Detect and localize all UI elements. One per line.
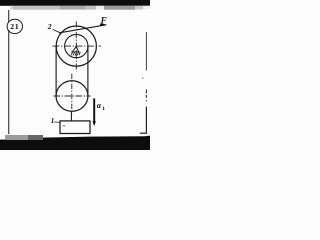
svg-text:1: 1 (102, 106, 105, 112)
load rectangle 1 (60, 121, 90, 134)
problem number circle 21 (7, 19, 22, 33)
pulley 2 vertical center line (75, 22, 77, 72)
pulley 1 horizontal center line (54, 95, 91, 97)
svg-text:2: 2 (47, 22, 52, 31)
right edge adjacent figure border (145, 32, 147, 71)
force F arrowhead (100, 24, 107, 27)
rope to force F (59, 25, 106, 33)
leader line label 1 (54, 121, 59, 124)
svg-text:F: F (100, 15, 107, 25)
rope to load (70, 111, 72, 121)
frame left border (8, 10, 10, 134)
pulley 1 vertical center line (71, 74, 73, 115)
svg-text:21: 21 (10, 22, 19, 31)
left rope (55, 46, 57, 96)
pulley 1 circle (56, 81, 88, 112)
pulley 2 inner circle (65, 34, 88, 57)
right edge bottom corner line (140, 132, 147, 134)
pulley 2 horizontal center line (53, 45, 102, 47)
pulley 2 outer circle (56, 26, 96, 66)
right rope (87, 46, 89, 96)
svg-text:1: 1 (51, 117, 55, 125)
leader line label 2 (53, 29, 62, 33)
scan black bar bottom (0, 136, 150, 150)
svg-text:a: a (97, 101, 101, 110)
small mark inside load (63, 125, 66, 127)
scan dark block bottom left (28, 135, 43, 140)
scan gray band top (0, 0, 150, 6)
scan gray block bottom left (5, 135, 28, 140)
small dot right edge (142, 77, 143, 78)
axle mount hatching (71, 52, 80, 55)
acceleration arrow a1 (93, 98, 95, 122)
pulley 2 axle mount triangle (71, 46, 79, 52)
